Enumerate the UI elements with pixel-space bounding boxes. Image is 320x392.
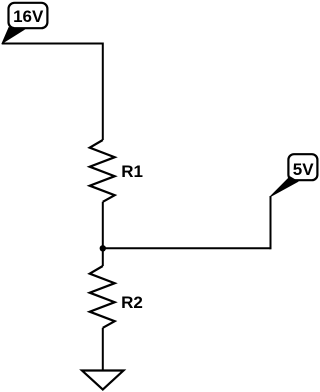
net flag 5V [270, 154, 317, 196]
ground [82, 371, 124, 390]
resistor R1 [90, 140, 115, 202]
svg-text:5V: 5V [293, 160, 314, 179]
wire R2 to ground [102, 328, 104, 371]
wire junction to right corner [103, 247, 271, 249]
wire R1 to junction node [102, 202, 104, 249]
svg-text:R1: R1 [121, 162, 143, 181]
wire junction down to R2 [102, 248, 104, 266]
wire top horizontal from 16V flag [2, 43, 103, 45]
net flag 16V [2, 3, 47, 43]
svg-text:16V: 16V [13, 7, 44, 26]
wire vertical down to R1 [102, 43, 104, 141]
wire vertical up to 5V flag [270, 196, 272, 249]
svg-text:R2: R2 [121, 293, 143, 312]
node junction [100, 245, 106, 251]
resistor R2 [90, 266, 115, 328]
